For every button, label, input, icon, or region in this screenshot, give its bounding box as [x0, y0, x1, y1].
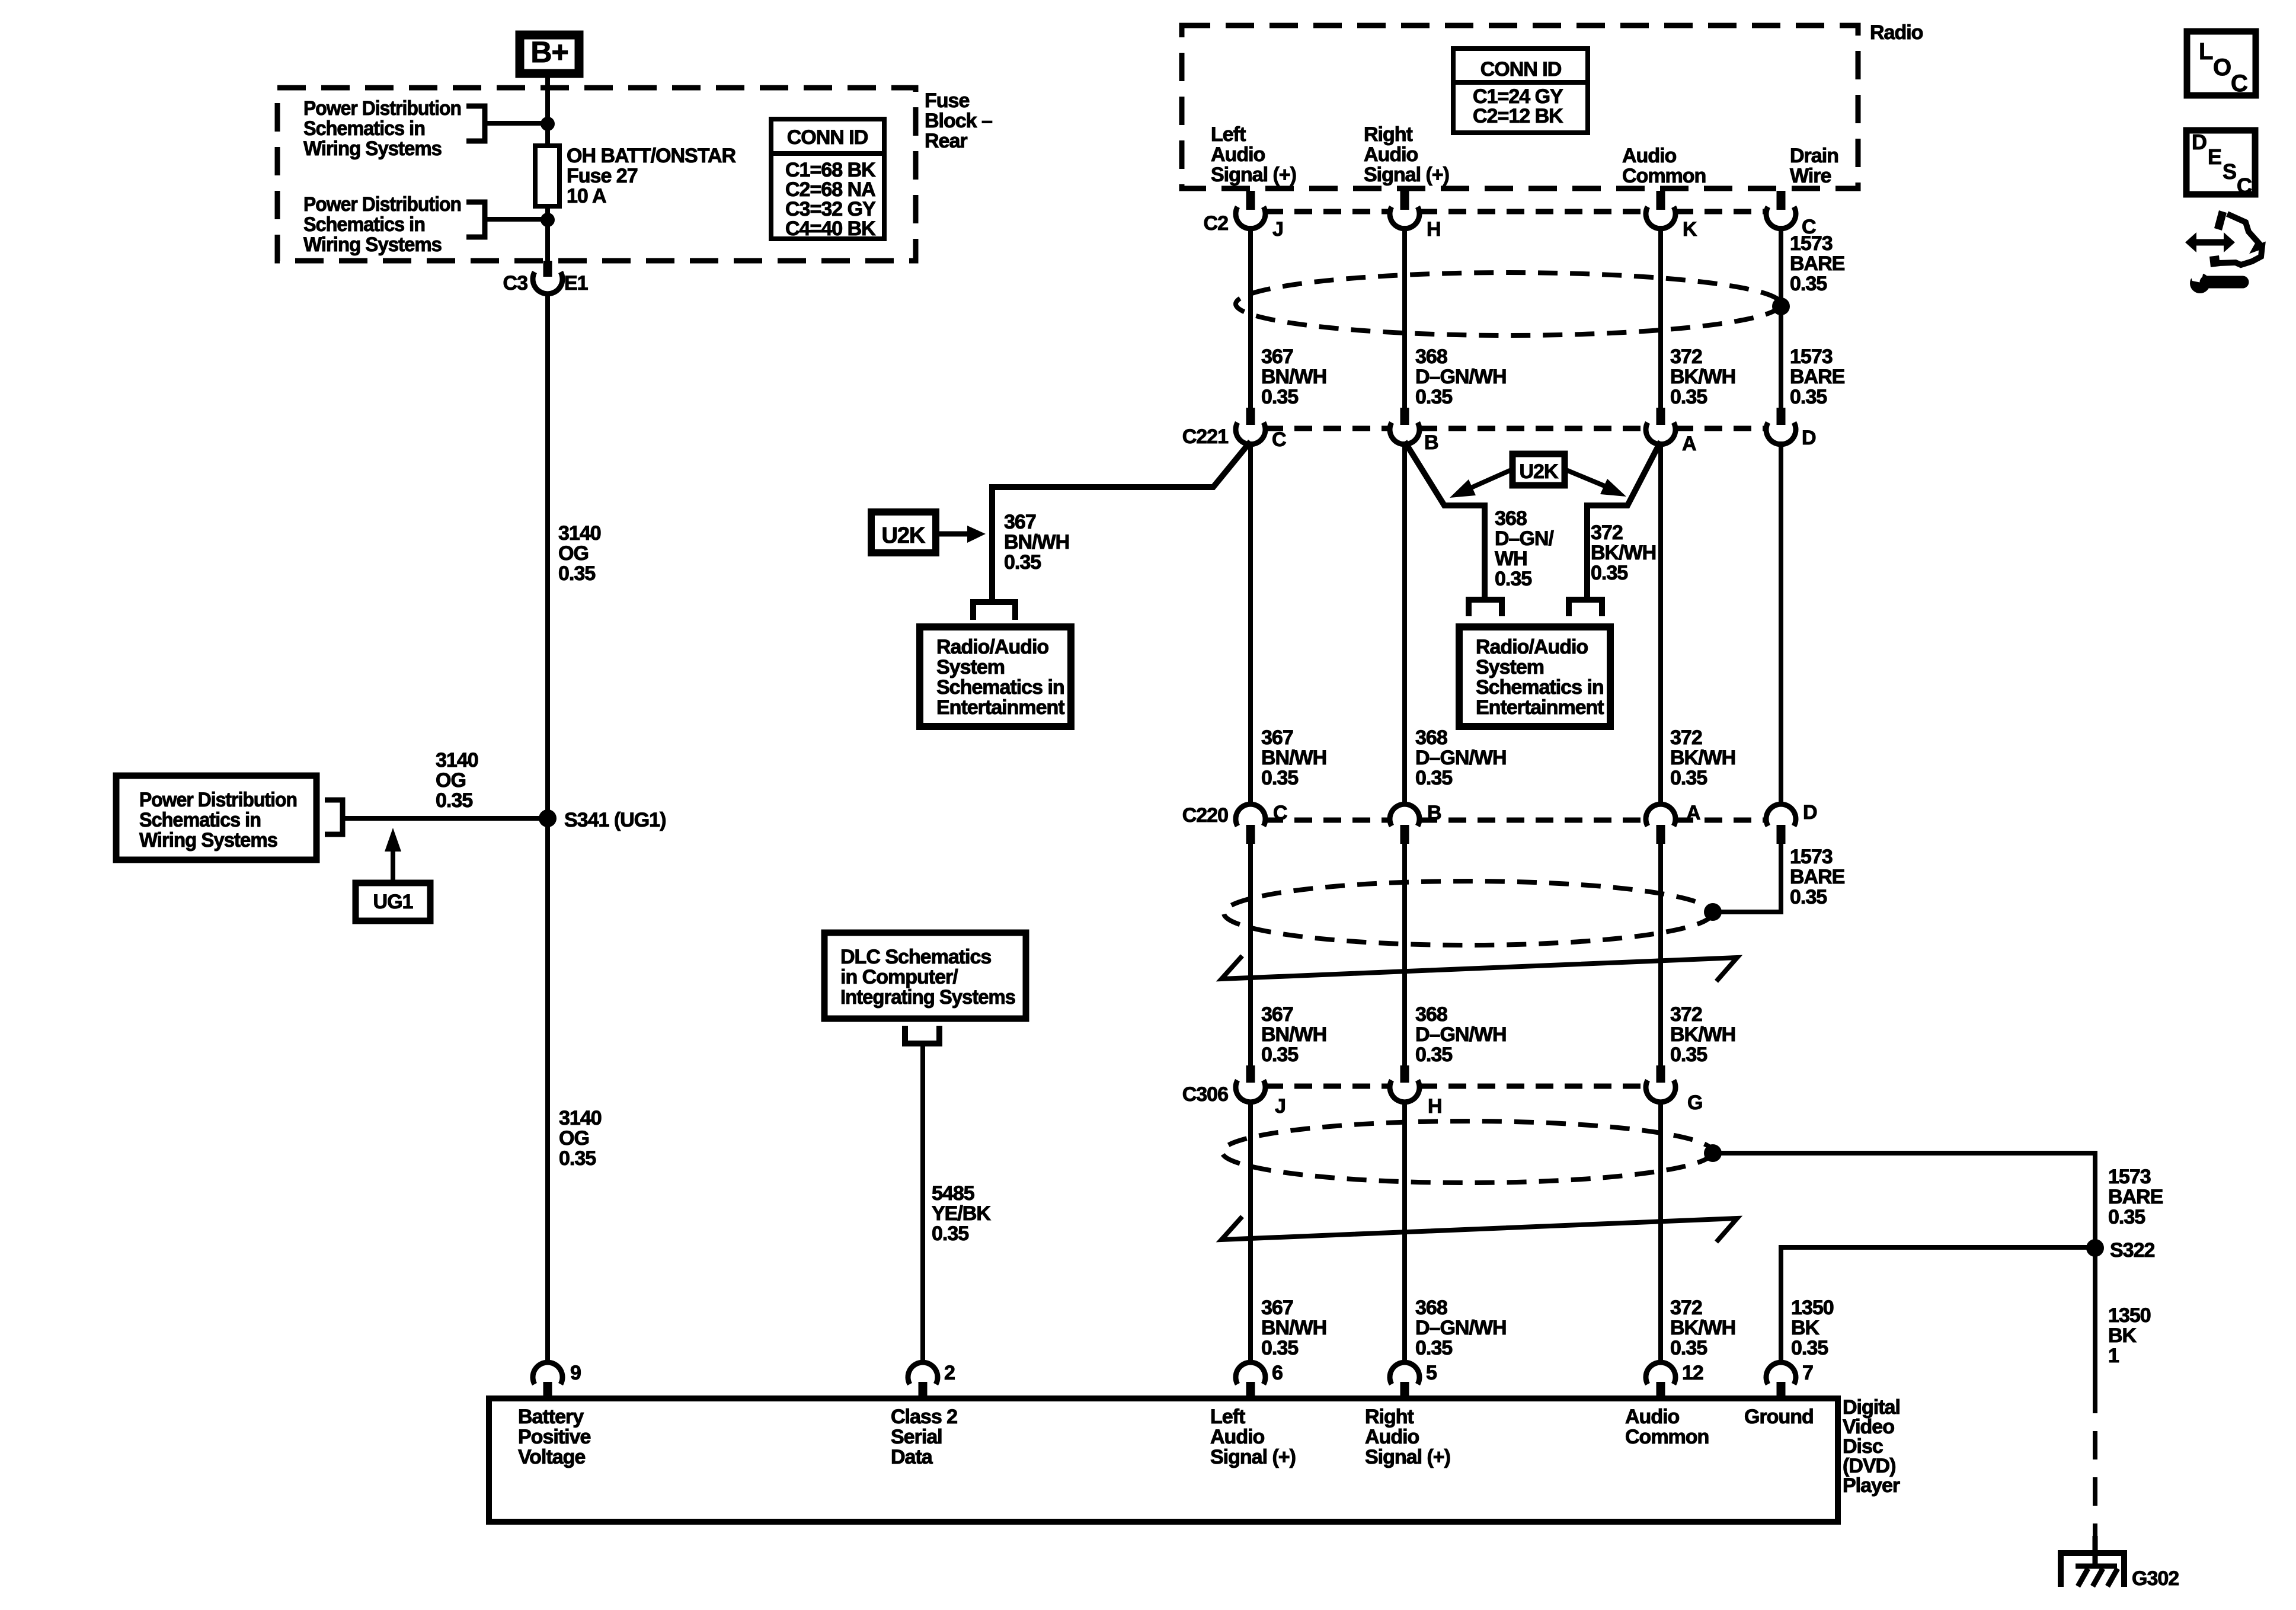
svg-text:0.35: 0.35: [1261, 767, 1298, 789]
svg-text:C4=40 BK: C4=40 BK: [785, 217, 876, 240]
svg-text:372: 372: [1591, 521, 1623, 544]
connector row C2 dashed line: [1265, 209, 1767, 215]
node junction dot upper: [541, 117, 555, 131]
svg-text:0.35: 0.35: [2108, 1206, 2145, 1228]
label 372 BK/WH 0.35 (set1): [1670, 345, 1735, 408]
svg-text:J: J: [1275, 1095, 1285, 1118]
svg-text:Wire: Wire: [1790, 165, 1831, 187]
svg-text:Drain: Drain: [1790, 145, 1838, 167]
svg-text:C: C: [2237, 174, 2252, 198]
svg-text:BN/WH: BN/WH: [1261, 747, 1326, 769]
svg-text:9: 9: [570, 1362, 581, 1384]
svg-text:System: System: [1476, 656, 1544, 678]
ground symbol G302: [2061, 1536, 2179, 1590]
wire shield to S322 (1573 BARE): [1713, 1153, 2095, 1385]
svg-text:U2K: U2K: [1519, 460, 1558, 483]
svg-text:367: 367: [1004, 511, 1036, 533]
wire dashed to ground G302: [2093, 1385, 2097, 1536]
label 367 BN/WH 0.35 (U2K branch): [1004, 511, 1069, 574]
svg-text:OG: OG: [436, 769, 466, 792]
connector row C306 dashed line: [1265, 1084, 1646, 1089]
label Power Distribution Schematics in Wiring Systems (lower): [303, 193, 461, 256]
label C306: [1182, 1083, 1228, 1106]
label Left Audio Signal (+) (DVD pin): [1210, 1406, 1296, 1468]
wire branch C221-A down to off-page connector: [1587, 441, 1661, 601]
fuse block rear dashed outline: [277, 88, 916, 261]
svg-text:BN/WH: BN/WH: [1261, 366, 1326, 388]
label 368 D-GN/WH 0.35 (set4): [1415, 1297, 1507, 1359]
label 367 BN/WH 0.35 (set3): [1261, 1003, 1326, 1066]
svg-text:Schematics in: Schematics in: [303, 213, 425, 236]
svg-text:3140: 3140: [559, 1107, 602, 1129]
connector C2 pin C: [1766, 191, 1816, 238]
svg-text:Schematics in: Schematics in: [1476, 676, 1604, 699]
svg-text:7: 7: [1802, 1362, 1813, 1384]
connector DVD pin 5: [1390, 1362, 1437, 1398]
svg-text:3140: 3140: [436, 749, 478, 772]
svg-text:U2K: U2K: [881, 523, 926, 548]
svg-text:K: K: [1683, 218, 1697, 241]
svg-text:D: D: [1802, 427, 1816, 449]
label C2: [1204, 212, 1229, 235]
svg-text:Wiring Systems: Wiring Systems: [139, 829, 277, 852]
connector C306 pin H: [1390, 1065, 1442, 1118]
svg-text:BARE: BARE: [2108, 1186, 2163, 1208]
svg-text:D: D: [1803, 801, 1817, 824]
svg-text:0.35: 0.35: [1670, 767, 1707, 789]
svg-text:B: B: [1427, 802, 1441, 824]
svg-text:BN/WH: BN/WH: [1261, 1317, 1326, 1339]
label 368 D-GN/WH 0.35 (set3): [1415, 1003, 1507, 1066]
svg-text:Audio: Audio: [1211, 143, 1265, 166]
svg-text:Left: Left: [1210, 1406, 1245, 1428]
svg-text:BN/WH: BN/WH: [1261, 1023, 1326, 1046]
power symbol B+ box: [520, 35, 579, 73]
wire 3140 OG upper segment: [545, 292, 550, 818]
svg-text:Right: Right: [1364, 123, 1413, 146]
off-page connector above Radio/Audio box (left): [973, 602, 1015, 620]
svg-text:O: O: [2213, 55, 2231, 81]
svg-text:367: 367: [1261, 1297, 1293, 1319]
svg-text:372: 372: [1670, 726, 1702, 749]
svg-text:CONN ID: CONN ID: [1480, 58, 1562, 81]
svg-text:J: J: [1272, 218, 1283, 241]
svg-text:1: 1: [2108, 1345, 2119, 1367]
svg-text:BK: BK: [2108, 1324, 2137, 1347]
svg-text:B: B: [1424, 431, 1438, 454]
fuse F27 symbol: [535, 146, 559, 206]
svg-text:BARE: BARE: [1790, 866, 1845, 888]
svg-text:C2: C2: [1204, 212, 1229, 235]
svg-text:0.35: 0.35: [1670, 1044, 1707, 1066]
svg-text:in Computer/: in Computer/: [840, 966, 958, 988]
wire 1573 BARE from C220-D to shield dot: [1713, 844, 1781, 912]
wire bracket to Power Distribution (upper): [466, 106, 548, 141]
label Right Audio Signal (+) (radio pin): [1364, 123, 1449, 186]
off-page connector above Radio/Audio box (mid-left): [1469, 600, 1502, 616]
svg-text:C: C: [2231, 71, 2247, 97]
svg-text:Right: Right: [1365, 1406, 1414, 1428]
connector C221 pin C: [1236, 408, 1286, 451]
svg-text:6: 6: [1272, 1362, 1283, 1384]
svg-text:Signal (+): Signal (+): [1365, 1446, 1450, 1468]
label 368 D-GN/WH 0.35 (set2): [1415, 726, 1507, 789]
svg-text:0.35: 0.35: [559, 1147, 596, 1170]
label 1573 BARE 0.35 (set1): [1790, 345, 1845, 408]
svg-text:368: 368: [1415, 1003, 1447, 1026]
svg-text:BK/WH: BK/WH: [1670, 1023, 1735, 1046]
svg-text:12: 12: [1682, 1362, 1703, 1384]
label 372 BK/WH 0.35 (set2): [1670, 726, 1735, 789]
wire branch to Power Distribution box: [325, 800, 548, 834]
wire 367 BN/WH (C2 J to C221 C): [1248, 226, 1253, 408]
label Right Audio Signal (+) (DVD pin): [1365, 1406, 1450, 1468]
svg-text:Integrating Systems: Integrating Systems: [840, 986, 1015, 1009]
svg-text:G302: G302: [2132, 1567, 2179, 1590]
svg-text:Voltage: Voltage: [518, 1446, 585, 1468]
svg-text:C2=12 BK: C2=12 BK: [1473, 105, 1563, 127]
label 5485 YE/BK 0.35: [932, 1182, 991, 1245]
svg-text:S322: S322: [2110, 1239, 2154, 1262]
svg-text:0.35: 0.35: [1591, 562, 1627, 584]
connector DVD pin 6: [1236, 1362, 1283, 1398]
Digital Video Disc (DVD) Player box: [489, 1398, 1838, 1522]
label Ground (DVD pin): [1744, 1406, 1814, 1428]
svg-text:0.35: 0.35: [1495, 568, 1531, 590]
label 1573 BARE 0.35 (below C220): [1790, 846, 1845, 908]
svg-text:Common: Common: [1625, 1426, 1709, 1448]
svg-text:Power Distribution: Power Distribution: [303, 193, 461, 216]
label 3140 OG 0.35 (lower): [559, 1107, 602, 1170]
svg-text:BN/WH: BN/WH: [1004, 531, 1069, 553]
label 368 D-GN/ WH 0.35 (branch): [1495, 507, 1554, 590]
svg-text:E1: E1: [564, 272, 588, 295]
svg-text:Signal (+): Signal (+): [1364, 164, 1449, 186]
wire 3140 OG lower segment: [545, 818, 550, 1365]
svg-text:C306: C306: [1182, 1083, 1228, 1106]
svg-text:1573: 1573: [1790, 232, 1833, 255]
svg-text:DLC Schematics: DLC Schematics: [840, 946, 991, 968]
svg-text:D–GN/WH: D–GN/WH: [1415, 366, 1507, 388]
svg-text:C: C: [1273, 802, 1287, 824]
svg-text:BK/WH: BK/WH: [1591, 542, 1656, 564]
CONN ID table (radio): [1453, 49, 1588, 133]
UG1 box with arrow: [356, 828, 430, 921]
svg-text:368: 368: [1415, 345, 1447, 368]
svg-text:Audio: Audio: [1210, 1426, 1265, 1448]
connector C3/E1: [503, 261, 588, 295]
svg-text:0.35: 0.35: [1415, 767, 1452, 789]
Power Distribution Schematics box: [116, 776, 316, 860]
svg-text:367: 367: [1261, 345, 1293, 368]
label 372 BK/WH 0.35 (branch): [1591, 521, 1656, 584]
svg-text:367: 367: [1261, 726, 1293, 749]
svg-text:A: A: [1686, 802, 1700, 824]
label 1573 BARE 0.35 (right): [2108, 1166, 2163, 1228]
Radio dashed outline: [1182, 25, 1858, 188]
svg-text:BARE: BARE: [1790, 366, 1845, 388]
connector C2 pin H: [1390, 191, 1441, 241]
drain junction dot on shield (middle): [1704, 903, 1722, 921]
label 1350 BK 0.35: [1791, 1297, 1834, 1359]
svg-text:Signal (+): Signal (+): [1211, 164, 1296, 186]
wire 368 D-GN/WH (C306 to DVD pin5): [1402, 1100, 1407, 1365]
svg-text:368: 368: [1415, 726, 1447, 749]
svg-text:0.35: 0.35: [1415, 386, 1452, 408]
wire branch C221-C to Radio/Audio (left): [992, 441, 1251, 601]
svg-text:Common: Common: [1622, 165, 1706, 187]
wire 1573 BARE (C221 to C220): [1779, 441, 1783, 806]
wire 367 BN/WH (C220 to C306): [1248, 844, 1253, 1065]
connector row C221 dashed line: [1265, 426, 1767, 431]
wire ground 1350 BK from DVD pin7: [1781, 1247, 2095, 1365]
svg-text:Signal (+): Signal (+): [1210, 1446, 1296, 1468]
Radio/Audio System Schematics box (right): [1459, 627, 1610, 726]
svg-text:Data: Data: [891, 1446, 933, 1468]
arrow U2K to left wire: [1450, 469, 1512, 498]
svg-text:S341 (UG1): S341 (UG1): [564, 809, 666, 831]
label 368 D-GN/WH 0.35 (set1): [1415, 345, 1507, 408]
svg-text:Audio: Audio: [1625, 1406, 1680, 1428]
wire 372 BK/WH (C221 to C220): [1658, 441, 1663, 806]
svg-text:10 A: 10 A: [567, 185, 606, 207]
svg-text:Positive: Positive: [518, 1426, 590, 1448]
svg-text:1573: 1573: [1790, 846, 1833, 868]
label 367 BN/WH 0.35 (set4): [1261, 1297, 1326, 1359]
svg-text:Left: Left: [1211, 123, 1246, 146]
svg-text:Audio: Audio: [1365, 1426, 1419, 1448]
svg-text:5485: 5485: [932, 1182, 974, 1205]
label C220: [1182, 804, 1228, 827]
svg-text:0.35: 0.35: [1790, 886, 1827, 908]
wire 5485 YE/BK class 2 serial data: [920, 1044, 925, 1365]
connector C2 pin J: [1236, 191, 1283, 241]
connector DVD pin 9: [533, 1362, 581, 1398]
svg-text:0.35: 0.35: [932, 1222, 968, 1245]
drain junction dot on shield (upper): [1772, 297, 1790, 315]
shield ellipse (lower): [1222, 1121, 1713, 1183]
svg-text:Fuse: Fuse: [925, 89, 969, 112]
label S341 (UG1): [564, 809, 666, 831]
svg-text:Battery: Battery: [518, 1406, 584, 1428]
svg-text:WH: WH: [1495, 548, 1527, 570]
label OH BATT/ONSTAR Fuse 27 10 A: [567, 145, 736, 207]
svg-text:0.35: 0.35: [1261, 386, 1298, 408]
svg-text:1573: 1573: [2108, 1166, 2151, 1188]
svg-text:D–GN/WH: D–GN/WH: [1415, 747, 1507, 769]
svg-text:BK/WH: BK/WH: [1670, 1317, 1735, 1339]
wire 368 D-GN/WH (C220 to C306): [1402, 844, 1407, 1065]
svg-text:System: System: [936, 656, 1005, 678]
wire 368 D-GN/WH (C2 H to C221 B): [1402, 226, 1407, 408]
svg-text:0.35: 0.35: [1004, 551, 1041, 574]
svg-text:0.35: 0.35: [558, 562, 595, 585]
connector C306 pin J: [1236, 1065, 1285, 1118]
connector C221 pin B: [1390, 408, 1438, 454]
wire - fuse to connector C3: [545, 206, 550, 263]
label 372 BK/WH 0.35 (set4): [1670, 1297, 1735, 1359]
shield ellipse (upper): [1236, 273, 1781, 335]
off-page connector below DLC box: [905, 1026, 939, 1044]
Radio/Audio System Schematics box (left): [920, 627, 1071, 726]
svg-text:OG: OG: [558, 542, 589, 565]
label 367 BN/WH 0.35 (set1): [1261, 345, 1326, 408]
svg-text:D–GN/WH: D–GN/WH: [1415, 1023, 1507, 1046]
svg-text:C: C: [1272, 428, 1286, 451]
shield ellipse (middle): [1224, 881, 1712, 945]
svg-text:0.35: 0.35: [1670, 1337, 1707, 1359]
node junction dot lower: [541, 213, 555, 227]
svg-text:Power Distribution: Power Distribution: [303, 97, 461, 120]
connector C2 pin K: [1646, 191, 1697, 241]
svg-text:372: 372: [1670, 1297, 1702, 1319]
arrow U2K to right wire: [1565, 469, 1626, 497]
drain junction dot on shield (lower): [1704, 1144, 1722, 1162]
off-page connector above Radio/Audio box (mid-right): [1569, 600, 1602, 616]
svg-text:Player: Player: [1843, 1474, 1900, 1497]
wire 372 BK/WH (C220 to C306): [1658, 844, 1663, 1065]
svg-text:C220: C220: [1182, 804, 1228, 827]
U2K box (right): [1512, 454, 1565, 485]
label Power Distribution Schematics in Wiring Systems (upper): [303, 97, 461, 160]
connector DVD pin 2: [908, 1362, 955, 1398]
wire branch C221-B down to off-page connector: [1405, 441, 1485, 601]
svg-text:OH BATT/ONSTAR: OH BATT/ONSTAR: [567, 145, 736, 167]
DESC icon box: [2186, 130, 2255, 198]
wire 372 BK/WH (C2 K to C221 A): [1658, 226, 1663, 408]
label Drain Wire (radio pin): [1790, 145, 1838, 187]
label 3140 OG 0.35 (branch): [436, 749, 478, 812]
connector row C220 dashed line: [1265, 818, 1767, 823]
label 372 BK/WH 0.35 (set3): [1670, 1003, 1735, 1066]
svg-text:1350: 1350: [2108, 1304, 2151, 1327]
svg-text:Fuse 27: Fuse 27: [567, 165, 638, 187]
label 367 BN/WH 0.35 (set2): [1261, 726, 1326, 789]
wire 367 BN/WH (C221 to C220): [1248, 441, 1253, 806]
connector DVD pin 7: [1766, 1362, 1813, 1398]
svg-text:CONN ID: CONN ID: [787, 126, 868, 149]
wire bracket to Power Distribution (lower): [466, 202, 548, 237]
svg-text:Radio: Radio: [1870, 21, 1923, 44]
label 3140 OG 0.35 (upper): [558, 522, 601, 585]
svg-text:Audio: Audio: [1622, 145, 1677, 167]
label Class 2 Serial Data (DVD pin): [891, 1406, 957, 1468]
svg-text:0.35: 0.35: [1415, 1044, 1452, 1066]
label C221: [1182, 425, 1228, 448]
label Fuse Block - Rear: [925, 89, 992, 152]
svg-text:3140: 3140: [558, 522, 601, 545]
svg-text:G: G: [1687, 1092, 1702, 1114]
svg-text:Entertainment: Entertainment: [936, 696, 1064, 719]
wire 372 BK/WH (C306 to DVD pin12): [1658, 1100, 1663, 1365]
wire 367 BN/WH (C306 to DVD pin6): [1248, 1100, 1253, 1365]
svg-text:Block –: Block –: [925, 110, 992, 132]
svg-text:BK/WH: BK/WH: [1670, 747, 1735, 769]
U2K box (left): [871, 512, 936, 553]
svg-text:C221: C221: [1182, 425, 1228, 448]
svg-text:UG1: UG1: [373, 891, 413, 913]
label Radio: [1870, 21, 1923, 44]
svg-text:0.35: 0.35: [436, 789, 472, 812]
svg-text:0.35: 0.35: [1790, 273, 1827, 295]
navigation arrow and wrench icon: [2185, 210, 2262, 293]
svg-text:BARE: BARE: [1790, 252, 1845, 275]
label Left Audio Signal (+) (radio pin): [1211, 123, 1296, 186]
svg-text:0.35: 0.35: [1791, 1337, 1828, 1359]
connector C220 pin C: [1236, 802, 1287, 844]
wire - battery feed from B+ to fuse: [545, 78, 550, 146]
svg-text:Class 2: Class 2: [891, 1406, 957, 1428]
svg-text:0.35: 0.35: [1261, 1337, 1298, 1359]
connector DVD pin 12: [1646, 1362, 1703, 1398]
svg-text:367: 367: [1261, 1003, 1293, 1026]
svg-text:BK: BK: [1791, 1317, 1820, 1339]
label Battery Positive Voltage (DVD pin): [518, 1406, 590, 1468]
connector C220 pin D: [1766, 801, 1817, 844]
svg-text:Radio/Audio: Radio/Audio: [936, 636, 1048, 658]
svg-text:BK/WH: BK/WH: [1670, 366, 1735, 388]
svg-text:2: 2: [944, 1362, 955, 1384]
connector C220 pin B: [1390, 802, 1441, 844]
svg-text:368: 368: [1495, 507, 1527, 530]
svg-text:1573: 1573: [1790, 345, 1833, 368]
connector C220 pin A: [1646, 802, 1700, 844]
connector C306 pin G: [1646, 1065, 1702, 1114]
label Audio Common (radio pin): [1622, 145, 1706, 187]
svg-text:1350: 1350: [1791, 1297, 1834, 1319]
svg-text:Wiring Systems: Wiring Systems: [303, 137, 442, 160]
svg-text:Rear: Rear: [925, 130, 967, 152]
svg-text:Wiring Systems: Wiring Systems: [303, 233, 442, 256]
splice S341 junction dot: [539, 809, 557, 827]
svg-text:0.35: 0.35: [1670, 386, 1707, 408]
label Digital Video Disc (DVD) Player: [1843, 1396, 1900, 1497]
svg-text:S: S: [2223, 159, 2236, 184]
svg-text:Schematics in: Schematics in: [303, 117, 425, 140]
label 1573 BARE 0.35 (top): [1790, 232, 1845, 295]
connector C221 pin D: [1766, 408, 1816, 449]
svg-text:H: H: [1428, 1095, 1442, 1118]
label 1350 BK 1 (right): [2108, 1304, 2151, 1367]
svg-text:Ground: Ground: [1744, 1406, 1814, 1428]
DLC Schematics box: [824, 933, 1026, 1019]
svg-text:Serial: Serial: [891, 1426, 942, 1448]
svg-text:B+: B+: [530, 36, 568, 69]
svg-text:A: A: [1682, 433, 1696, 455]
splice S322 junction dot: [2086, 1239, 2154, 1262]
label Audio Common (DVD pin): [1625, 1406, 1709, 1448]
CONN ID table (fuse block): [771, 119, 884, 240]
harness break symbol (upper): [1221, 956, 1737, 981]
LOC icon box: [2187, 31, 2256, 97]
svg-text:368: 368: [1415, 1297, 1447, 1319]
svg-text:D–GN/WH: D–GN/WH: [1415, 1317, 1507, 1339]
svg-text:Audio: Audio: [1364, 143, 1418, 166]
svg-text:H: H: [1427, 218, 1441, 241]
svg-text:OG: OG: [559, 1127, 589, 1150]
svg-text:L: L: [2199, 39, 2213, 65]
svg-text:Schematics in: Schematics in: [936, 676, 1064, 699]
svg-text:D: D: [2192, 130, 2207, 154]
svg-text:0.35: 0.35: [1415, 1337, 1452, 1359]
svg-text:372: 372: [1670, 1003, 1702, 1026]
wire 1573 BARE (C2 C to C221 D): [1779, 226, 1783, 408]
svg-text:C3: C3: [503, 272, 528, 295]
svg-text:Schematics in: Schematics in: [139, 809, 261, 831]
svg-text:YE/BK: YE/BK: [932, 1202, 991, 1225]
wire 368 D-GN/WH (C221 to C220): [1402, 441, 1407, 806]
svg-text:E: E: [2208, 145, 2221, 169]
